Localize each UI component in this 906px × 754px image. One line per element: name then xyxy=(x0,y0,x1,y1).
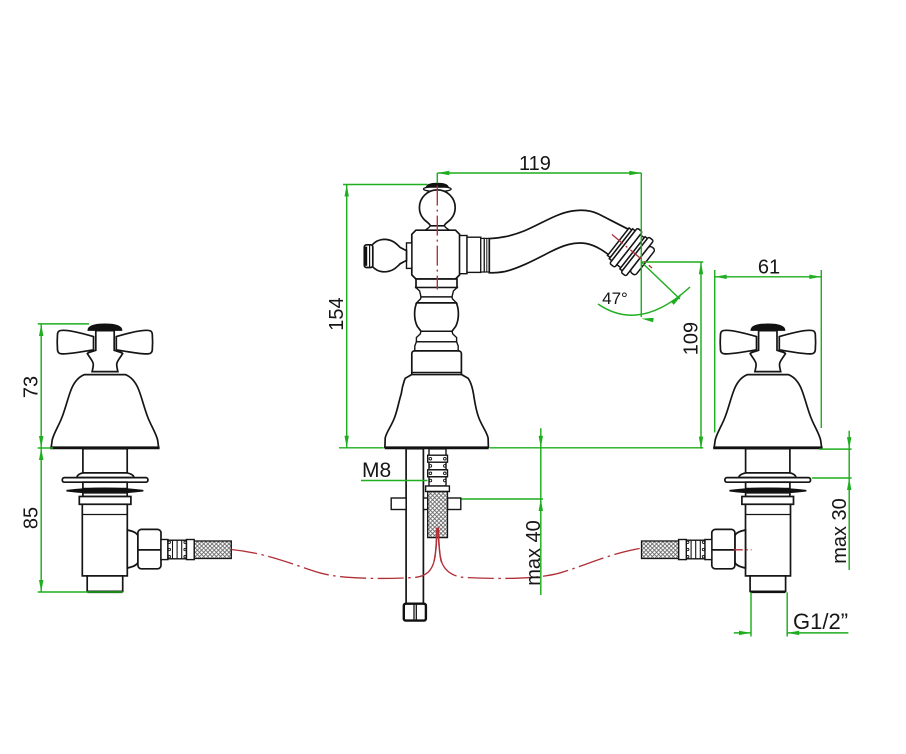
left knob end cap xyxy=(364,245,373,268)
dim max30 line xyxy=(848,431,850,570)
spout top black cap xyxy=(426,183,448,187)
mixer body xyxy=(412,230,460,279)
center braided connector xyxy=(428,492,448,538)
left flexible hose (red) xyxy=(231,529,437,579)
aerator red axis xyxy=(612,235,652,269)
svg-text:M8: M8 xyxy=(362,459,391,482)
aerator assembly (angled) xyxy=(604,224,659,281)
dim 154 line xyxy=(346,185,348,448)
dim 109 line xyxy=(700,262,702,448)
ribbed nipple xyxy=(168,540,187,559)
svg-text:85: 85 xyxy=(21,507,43,529)
clamp plate xyxy=(391,498,461,510)
center hose connector ribs xyxy=(426,449,450,492)
braided flex hose xyxy=(194,541,231,559)
stud nut xyxy=(404,604,426,621)
dim 61 line xyxy=(715,276,822,278)
compression ring xyxy=(161,540,168,560)
o-ring seal (black lens) xyxy=(67,488,144,493)
ball seat ring xyxy=(425,226,449,230)
right flexible hose (red) xyxy=(438,529,640,579)
column taper B xyxy=(416,288,457,297)
handle top cap xyxy=(88,324,122,330)
dim 119 line xyxy=(437,172,641,174)
side outlet flare xyxy=(127,530,138,568)
spout column: top cap ring xyxy=(424,186,452,191)
deck reference line xyxy=(490,447,704,449)
column ring C xyxy=(417,297,457,303)
svg-text:max 40: max 40 xyxy=(523,520,545,586)
turned column ring A xyxy=(416,279,457,288)
M8 threaded stud xyxy=(406,449,423,604)
47 deg angle arc xyxy=(598,287,690,315)
hose spike solid tips xyxy=(434,528,437,563)
svg-text:G1/2”: G1/2” xyxy=(793,609,848,634)
handle hub and neck xyxy=(87,331,122,372)
outlet hex nut xyxy=(138,529,161,568)
bell base xyxy=(385,375,489,448)
svg-text:119: 119 xyxy=(519,153,551,175)
column flare ring G xyxy=(415,342,458,351)
lock ring xyxy=(79,497,131,505)
bell base collar xyxy=(412,351,462,375)
center red axis line xyxy=(436,186,438,290)
spout root collar rings xyxy=(460,236,467,274)
dim max40 line xyxy=(540,428,542,595)
extension line to aerator xyxy=(640,173,642,317)
valve bell escutcheon xyxy=(51,375,158,448)
svg-text:154: 154 xyxy=(326,297,348,330)
valve tailpiece G1/2 xyxy=(87,576,123,592)
column waist ring F xyxy=(416,331,456,342)
svg-text:47°: 47° xyxy=(602,289,628,308)
left knob collar xyxy=(407,243,412,269)
curved spout tube xyxy=(489,210,637,273)
ball ornament xyxy=(419,190,455,226)
right-hand valve (mirrored copy) xyxy=(642,324,823,592)
svg-text:61: 61 xyxy=(758,257,780,279)
47 deg angle ray xyxy=(641,262,680,299)
dim 73/85 line xyxy=(40,324,42,592)
valve neck cylinder below deck xyxy=(83,449,127,473)
column barrel bulge xyxy=(415,303,459,331)
dim G1/2 lines xyxy=(750,592,752,636)
M8 leader line xyxy=(361,480,428,482)
left knob ball xyxy=(368,239,406,271)
deck flange plate xyxy=(62,478,148,483)
valve body xyxy=(82,504,127,576)
right outlet red axis xyxy=(734,549,752,551)
dome washer xyxy=(77,473,134,478)
svg-text:max 30: max 30 xyxy=(829,498,851,564)
left-hand valve cross handle xyxy=(57,330,93,354)
svg-text:73: 73 xyxy=(21,376,43,398)
svg-text:109: 109 xyxy=(681,322,703,355)
